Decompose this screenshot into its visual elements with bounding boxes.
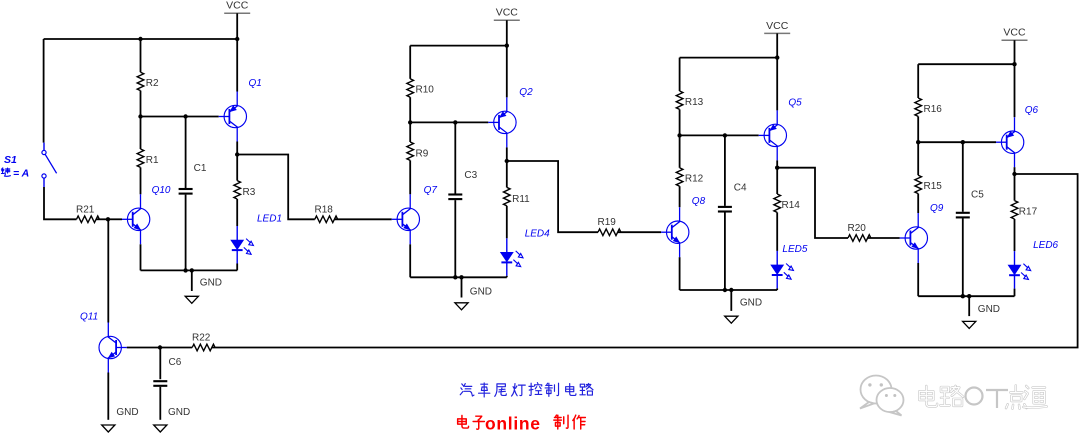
wire base net to Q1 [141,116,219,118]
node Q1 output junction [235,152,239,156]
wire LED6 to rail [1014,289,1016,297]
svg-text:S1: S1 [4,154,17,166]
wire R10 to R9 [409,97,411,142]
svg-text:VCC: VCC [226,0,249,12]
transistor Q7 [397,208,419,230]
wire base net to Q6 [918,141,996,143]
svg-text:R20: R20 [848,223,867,234]
svg-text:LED4: LED4 [525,228,550,239]
resistor R1 [137,149,144,167]
node R22/C6 junction [158,345,162,349]
node Q2 output junction [505,159,509,163]
svg-text:VCC: VCC [766,20,789,32]
svg-text:GND: GND [116,407,138,418]
wire bottom rail stage1 [141,269,238,271]
wire C6 bottom [159,387,161,420]
wire C4 top [724,135,726,206]
svg-text:online: online [485,413,541,433]
wire LED1 to rail [236,264,238,271]
transistor Q1 [224,105,246,127]
wire R17 to LED6 [1014,219,1016,251]
resistor R12 [676,168,683,186]
wire VCC3 down to Q5 [776,33,778,110]
wire left branch down to switch [43,39,45,143]
wire output to R20 [777,168,848,238]
wire junction down to Q11 collector [107,219,109,322]
ground C6 [154,425,167,432]
wire rail down to R13 [679,58,681,91]
wire R9 to Q7 [409,160,411,194]
wire R17 top [1014,174,1016,201]
wire C5 bottom [962,218,964,296]
wire R14 top [776,168,778,194]
svg-text:Q7: Q7 [424,185,438,196]
wire bottom rail stage3 [680,289,778,291]
wire R14 to LED5 [776,212,778,251]
node GND stub junction3 [729,288,733,292]
wire R16 to R15 [917,116,919,175]
node VCC2 rail junction [505,43,509,47]
node C3 rail junction [453,275,457,279]
node GND stub junction4 [967,294,971,298]
svg-text:Q11: Q11 [80,312,98,323]
resistor R16 [915,98,922,116]
label 键 = A [1,168,10,176]
wire GND stub2 [461,277,463,297]
wire feedback to R22 [212,174,1078,348]
wire C1 top [185,117,187,189]
resistor R13 [676,91,683,109]
svg-text:Q8: Q8 [692,196,706,207]
svg-text:= A: = A [13,168,29,180]
svg-text:GND: GND [978,304,1000,315]
resistor R22 [192,344,215,351]
ground stage3 [725,316,738,323]
LED LED6 [1014,251,1016,265]
resistor R15 [915,175,922,193]
svg-text:Q6: Q6 [1025,105,1039,116]
wire rail down to R16 [917,64,919,98]
switch S1 [42,143,57,187]
node C1 rail junction [183,268,187,272]
wire GND stub3 [730,290,732,311]
wire Q11 emitter down [107,373,109,420]
svg-text:R11: R11 [512,194,530,205]
wire LED4 to rail [506,276,508,278]
svg-text:R13: R13 [685,97,704,108]
svg-text:Q9: Q9 [930,203,944,214]
wire rail down to R10 [409,46,411,79]
wire R15 to Q9 [917,194,919,213]
wire Q10 emitter to rail [140,244,142,270]
caption 电子online 制作 [458,416,469,429]
resistor R9 [407,142,414,160]
wire R13 to R12 [679,109,681,167]
node base rail junction3 [677,133,681,137]
transistor Q9 [905,227,927,249]
svg-text:GND: GND [740,298,762,309]
node GND stub junction1 [190,268,194,272]
svg-text:C4: C4 [734,183,747,194]
node Q5 output junction [775,166,779,170]
svg-text:R21: R21 [76,204,95,215]
svg-text:R1: R1 [146,155,159,166]
node base rail junction1 [138,114,142,118]
svg-text:VCC: VCC [496,7,519,19]
node C4 rail junction [723,288,727,292]
wire base net to Q5 [680,134,759,136]
svg-text:Q10: Q10 [152,185,171,196]
svg-text:R22: R22 [192,332,211,343]
wire bottom rail stage4 [918,295,1014,297]
wire GND stub1 [191,270,193,291]
svg-text:R2: R2 [146,78,159,89]
resistor R14 [774,194,781,212]
wire junction to Q10 base [108,218,122,220]
node Q6 output junction [1012,172,1016,176]
wire C6 top [159,348,161,380]
capacitor C1 [179,188,193,190]
node GND stub junction2 [459,275,463,279]
transistor Q5 [764,124,786,146]
svg-text:C3: C3 [464,170,477,181]
svg-text:R15: R15 [924,181,943,192]
svg-text:C1: C1 [194,163,207,174]
svg-text:C5: C5 [971,190,984,201]
wire C5 top [962,142,964,212]
wire C3 bottom [454,200,456,277]
node R2 rail junction [138,37,142,41]
wire Q1 collector to junction [236,142,238,155]
wire Q11 base to junction [127,347,160,349]
node VCC1 rail junction [235,37,239,41]
svg-text:LED5: LED5 [782,244,807,255]
resistor R17 [1011,201,1018,219]
capacitor C6 [153,380,167,382]
resistor R10 [407,79,414,97]
resistor R11 [503,187,510,205]
wire top rail stage1 [44,38,238,40]
svg-text:C6: C6 [169,357,182,368]
node C5 rail junction [961,294,965,298]
wire base net to Q2 [410,121,488,123]
node base rail junction2 [408,120,412,124]
wire Q7 emitter to rail [409,244,411,277]
wire VCC1 down to Q1 emitter [236,13,238,91]
wire R1 to Q10 [140,167,142,194]
transistor Q2 [494,111,516,133]
svg-text:R17: R17 [1019,206,1038,217]
wire C3 top [454,122,456,193]
wire top rail stage2 [410,45,507,47]
svg-text:R18: R18 [315,204,334,215]
wire VCC4 down to Q6 [1014,40,1016,117]
node VCC4 rail junction [1012,62,1016,66]
node C3 top junction [453,120,457,124]
LED LED4 [506,238,508,252]
wire R3 top [236,155,238,181]
wire top rail stage3 [680,57,778,59]
capacitor C4 [718,206,732,208]
resistor R18 [315,216,338,223]
capacitor C5 [956,212,970,214]
wire R2 to R1 [140,91,142,149]
wire bottom rail stage2 [410,276,507,278]
svg-text:GND: GND [200,278,222,289]
wire R11 to LED4 [506,206,508,239]
svg-text:R10: R10 [416,85,435,96]
resistor R21 [77,216,100,223]
wire Q2 collector to junction [506,147,508,161]
svg-text:GND: GND [168,407,190,418]
wire Q8 emitter to rail [679,257,681,290]
transistor Q8 [667,221,689,243]
wire Q5 collector to junction [776,160,778,167]
node C1 top junction [183,114,187,118]
svg-text:R19: R19 [598,217,617,228]
node base rail junction4 [916,140,920,144]
wire output to R19 [507,161,598,232]
svg-text:R12: R12 [685,174,704,185]
resistor R2 [140,39,142,72]
transistor Q6 [1001,131,1023,153]
LED LED1 [236,226,238,240]
svg-text:Q2: Q2 [519,87,533,98]
resistor R19 [598,229,621,236]
node C4 top junction [723,133,727,137]
title 汽车尾灯控制电路 [460,384,474,396]
svg-text:R14: R14 [782,200,801,211]
svg-text:VCC: VCC [1003,27,1026,39]
resistor R3 [234,181,241,199]
svg-text:Q5: Q5 [788,98,802,109]
svg-text:LED1: LED1 [257,213,282,224]
ground Q11 [102,425,115,432]
capacitor C3 [448,193,462,195]
watermark text 电路一点通 [919,386,937,407]
wire R11 top [506,161,508,187]
resistor R20 [848,235,871,242]
node VCC3 rail junction [775,55,779,59]
wire Q6 collector to junction [1014,167,1016,174]
wire top rail stage4 [918,63,1014,65]
wire switch to R21 [44,187,77,219]
ground stage4 [963,321,976,328]
LED LED5 [776,251,778,265]
wire GND stub4 [968,296,970,316]
svg-text:R3: R3 [243,187,256,198]
wire C1 bottom [185,195,187,271]
transistor Q11 [99,336,121,358]
wire R12 to Q8 [679,186,681,207]
node C5 top junction [961,140,965,144]
wire R3 to LED1 [236,199,238,226]
wire output to R18 [237,155,315,220]
svg-text:R16: R16 [924,104,943,115]
svg-text:LED6: LED6 [1033,240,1058,251]
svg-text:R9: R9 [416,148,429,159]
watermark wechat icon [860,376,904,416]
wire C4 bottom [724,213,726,291]
wire Q9 emitter to rail [917,263,919,296]
transistor Q10 [127,208,149,230]
svg-text:Q1: Q1 [249,78,262,89]
wire LED5 to rail [776,288,778,290]
node base junction Q10/Q11 [106,217,110,221]
ground stage1 [185,296,198,303]
ground stage2 [455,303,468,310]
svg-text:GND: GND [470,286,492,297]
wire VCC2 down to Q2 [506,20,508,97]
